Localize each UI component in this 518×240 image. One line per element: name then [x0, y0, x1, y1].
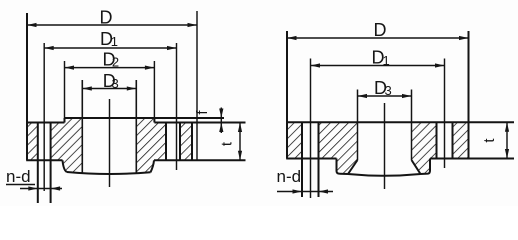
arrow n-d right (right drawing)	[319, 189, 329, 193]
arrow D3 right (right drawing)	[402, 94, 412, 98]
arrow D2 right	[145, 66, 155, 70]
boss bottom wavy line across bore (right drawing)	[348, 174, 421, 176]
n-d dimension line	[20, 188, 62, 190]
flange bottom right segment + t extension	[154, 159, 246, 161]
left OD edge + D extension line	[26, 13, 28, 160]
flange top + t extension (right drawing)	[286, 121, 514, 123]
left OD edge + D extension (right drawing)	[286, 31, 288, 159]
arrow D1 left (right drawing)	[311, 63, 321, 67]
svg-text:1: 1	[383, 53, 390, 68]
flange top right segment + t extension	[154, 122, 245, 124]
bore right edge + D3 extension	[135, 80, 137, 174]
hatch left middle block	[51, 118, 83, 174]
arrow n-d left (pointing right)	[28, 186, 38, 190]
arrow D1 right (right drawing)	[435, 63, 445, 67]
hatch left middle block (right drawing)	[319, 122, 358, 174]
arrow D right (right drawing)	[459, 36, 469, 40]
boss right step (right drawing)	[421, 159, 431, 175]
bore right weld flare	[412, 160, 421, 174]
right bolt hole left edge (right drawing)	[436, 122, 438, 158]
right bolt centerline / D1 extension (right drawing)	[444, 59, 446, 169]
hub bottom wavy line	[67, 172, 151, 174]
right bolt hole left edge	[165, 123, 167, 161]
left bolt centerline / D1 extension (right drawing)	[310, 59, 312, 199]
hatch left outer ring (right drawing)	[287, 122, 302, 158]
arrow D3 right	[127, 86, 137, 90]
arrow D1 left	[44, 46, 54, 50]
D right extension line	[196, 11, 198, 161]
arrow n-d left (right drawing)	[293, 189, 303, 193]
bore left weld flare	[348, 160, 358, 174]
f dimension line vertical	[220, 108, 222, 134]
arrow f bottom (pointing up)	[219, 123, 223, 133]
arrow D left	[27, 23, 37, 27]
raised face left step	[64, 118, 66, 123]
dimension line D (right drawing)	[287, 37, 469, 39]
svg-text:3: 3	[385, 83, 392, 98]
hub left rounded step	[63, 160, 68, 172]
left bolt hole right edge + n-d extension (right drawing)	[318, 122, 320, 197]
arrow D3 left	[82, 86, 92, 90]
svg-text:3: 3	[112, 76, 119, 91]
right bolt hole right edge	[179, 123, 181, 161]
arrow t top (pointing up)	[238, 123, 242, 133]
dimension line D1 (right drawing)	[311, 65, 445, 67]
svg-text:1: 1	[111, 34, 118, 49]
hatch right outer ring (right drawing)	[453, 122, 469, 158]
svg-text:D: D	[374, 20, 387, 40]
right OD edge + D extension (right drawing)	[468, 31, 470, 159]
arrow t bottom (right drawing)	[505, 149, 509, 159]
flange bottom left segment	[26, 159, 62, 161]
dimension line D3	[82, 88, 136, 90]
right OD edge	[191, 123, 193, 161]
left bolt hole left edge + n-d extension (right drawing)	[301, 122, 303, 197]
flange bottom left segment (right drawing)	[286, 158, 336, 160]
n-d dimension line (right drawing)	[277, 191, 333, 193]
hub right rounded step	[151, 160, 155, 172]
hatch right outer ring	[180, 123, 192, 161]
raised face top + f extension	[65, 117, 225, 119]
arrow D left (right drawing)	[287, 36, 297, 40]
left bolt centerline / D1 extension	[43, 43, 45, 191]
hatch left outer ring	[27, 123, 38, 161]
t dimension line vertical	[239, 123, 241, 161]
arrow n-d right (pointing left)	[51, 186, 61, 190]
arrow f top (pointing down)	[219, 109, 223, 119]
left bolt hole left edge + n-d extension	[37, 123, 39, 204]
flange bottom right segment + t extension (right drawing)	[430, 158, 514, 160]
bore right edge + D3 extension (right drawing)	[411, 90, 413, 161]
arrow t top (right drawing)	[505, 122, 509, 132]
svg-text:2: 2	[112, 54, 119, 69]
arrow t bottom (pointing down)	[238, 151, 242, 161]
arrow D1 right	[167, 46, 177, 50]
right bolt centerline / D1 extension	[176, 43, 178, 170]
arrow D2 left	[65, 66, 75, 70]
dimension line D3 (right drawing)	[358, 95, 412, 97]
left bolt hole right edge + n-d extension	[50, 123, 52, 204]
center line of right flange	[384, 103, 386, 189]
arrow D3 left (right drawing)	[358, 94, 368, 98]
raised face right step	[153, 118, 155, 123]
arrow D right	[188, 23, 198, 27]
boss left step (right drawing)	[337, 159, 349, 175]
n-d text underline	[6, 184, 35, 186]
dimension line D2	[65, 67, 155, 69]
svg-text:D: D	[100, 7, 113, 27]
D2 left extension	[64, 61, 66, 118]
bore left edge + D3 extension	[81, 80, 83, 174]
dimension line D1	[44, 47, 176, 49]
svg-text:n-d: n-d	[277, 167, 302, 186]
t dimension line vertical (right drawing)	[506, 122, 508, 158]
hatch right middle block	[136, 118, 166, 174]
hatch right middle block (right drawing)	[412, 122, 437, 174]
D2 right extension	[153, 61, 155, 118]
right bolt hole right edge (right drawing)	[452, 122, 454, 158]
bore left edge + D3 extension (right drawing)	[357, 90, 359, 161]
svg-text:n-d: n-d	[6, 167, 31, 186]
flange top left segment	[26, 122, 64, 124]
center line of left flange	[109, 99, 111, 187]
dimension line D	[27, 24, 197, 26]
